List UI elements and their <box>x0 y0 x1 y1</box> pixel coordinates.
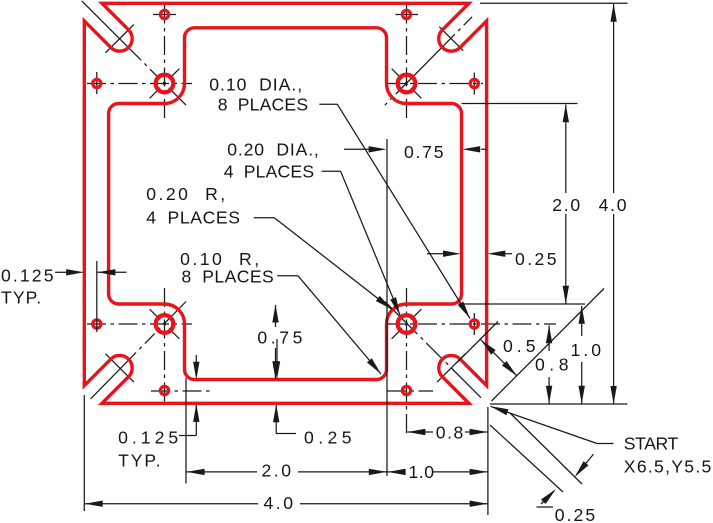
svg-text:0.25: 0.25 <box>555 505 596 523</box>
svg-text:2.0: 2.0 <box>262 460 292 480</box>
svg-text:0.125: 0.125 <box>1 266 54 286</box>
svg-text:0.75: 0.75 <box>404 142 444 162</box>
svg-text:2.0: 2.0 <box>552 195 580 215</box>
svg-text:X6.5,Y5.5: X6.5,Y5.5 <box>624 457 712 477</box>
svg-text:0.25: 0.25 <box>304 428 352 448</box>
svg-text:0.8: 0.8 <box>436 423 464 443</box>
svg-text:4.0: 4.0 <box>264 493 294 513</box>
svg-text:0.125: 0.125 <box>118 428 179 448</box>
svg-text:4 PLACES: 4 PLACES <box>146 207 240 227</box>
svg-text:0.20 DIA.,: 0.20 DIA., <box>227 139 319 159</box>
svg-text:0.5: 0.5 <box>503 336 536 356</box>
svg-text:TYP.: TYP. <box>1 288 42 308</box>
svg-text:4 PLACES: 4 PLACES <box>224 162 315 182</box>
svg-text:0.20 R,: 0.20 R, <box>146 184 226 204</box>
svg-text:8 PLACES: 8 PLACES <box>182 267 275 287</box>
svg-text:0.25: 0.25 <box>515 249 557 269</box>
svg-text:1.0: 1.0 <box>409 462 435 482</box>
svg-text:START: START <box>624 434 679 454</box>
svg-text:0.10 DIA.,: 0.10 DIA., <box>209 74 302 94</box>
svg-text:4.0: 4.0 <box>599 195 627 215</box>
svg-text:1.0: 1.0 <box>571 340 602 360</box>
svg-text:0.75: 0.75 <box>257 328 303 348</box>
svg-text:8 PLACES: 8 PLACES <box>218 95 309 115</box>
svg-text:0.8: 0.8 <box>535 355 569 375</box>
